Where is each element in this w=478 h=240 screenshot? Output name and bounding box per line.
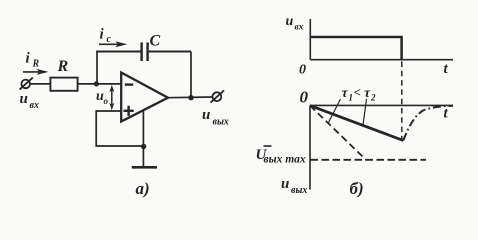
label u_vyx graph (281, 176, 307, 196)
svg-text:вых: вых (291, 185, 307, 196)
wire feedback top right (149, 51, 191, 53)
svg-text:1: 1 (349, 92, 354, 102)
recovery curve dash-dot (403, 106, 453, 141)
upper graph y-axis (309, 19, 311, 60)
output ramp dashed tau1 (310, 106, 366, 160)
svg-text:C: C (150, 33, 161, 50)
label u_vx graph (286, 14, 304, 33)
current label i_C (100, 27, 112, 46)
input terminal (20, 78, 33, 90)
wire feedback left vertical (96, 52, 98, 84)
capacitor C (142, 42, 148, 61)
svg-text:вых mах: вых mах (264, 154, 306, 166)
label u_0 (96, 89, 109, 106)
svg-text:R: R (32, 59, 40, 70)
label U_vyx_max (256, 146, 306, 166)
svg-text:τ: τ (364, 86, 371, 101)
current label i_R (26, 51, 40, 70)
lower graph y-axis (309, 105, 311, 189)
svg-text:u: u (202, 107, 210, 123)
node output junction (188, 95, 193, 100)
svg-text:вых: вых (213, 117, 229, 128)
svg-text:u: u (20, 91, 28, 107)
wire terminal to resistor (30, 83, 50, 85)
svg-text:вх: вх (295, 23, 304, 33)
svg-text:0: 0 (299, 62, 306, 77)
label u_vyx output (202, 107, 229, 128)
svg-text:2: 2 (370, 92, 376, 102)
node inverting input (94, 81, 99, 86)
svg-text:вх: вх (30, 100, 39, 111)
op-amp U1 (121, 73, 168, 122)
svg-text:б): б) (350, 179, 364, 198)
lower graph t-axis (310, 104, 453, 106)
dashed line pulse end (401, 62, 403, 140)
label tau1 < tau2 (342, 85, 377, 103)
pointer line tau1 (328, 99, 341, 124)
svg-text:0: 0 (300, 88, 309, 107)
wire op-amp output (168, 96, 212, 99)
voltage arrow u_0 (109, 85, 114, 110)
output terminal (211, 90, 225, 102)
label u_vx input (20, 91, 39, 111)
wire feedback top left (96, 51, 140, 53)
dashed level U_vyx_max (311, 159, 427, 161)
input pulse waveform (310, 37, 401, 59)
svg-text:с: с (107, 34, 112, 45)
svg-text:о: о (104, 96, 109, 106)
wire noninverting input loop (96, 111, 143, 146)
svg-text:R: R (57, 58, 69, 75)
current arrow i_C (99, 41, 127, 47)
resistor R (50, 78, 77, 91)
pointer line tau2 (363, 99, 367, 125)
output ramp solid tau2 (310, 106, 403, 141)
upper graph t-axis (310, 59, 453, 61)
wire feedback right vertical (190, 52, 192, 99)
svg-text:<: < (354, 85, 361, 100)
svg-text:u: u (281, 176, 289, 192)
node ground junction (141, 144, 146, 149)
ground (132, 166, 157, 169)
svg-text:u: u (286, 14, 294, 29)
wire resistor to inverting input (78, 83, 122, 85)
wire op-amp common to ground (142, 111, 144, 167)
current arrow i_R (23, 69, 49, 75)
svg-text:а): а) (136, 179, 150, 198)
svg-text:τ: τ (342, 86, 349, 101)
